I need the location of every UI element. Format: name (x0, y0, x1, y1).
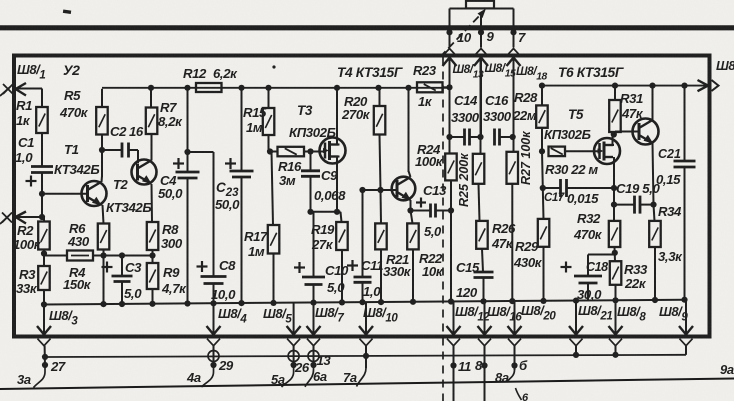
capacitor C23 (230, 171, 254, 177)
label C17 value (567, 191, 599, 206)
node C14 C16 mid (477, 134, 483, 140)
label T1 (54, 142, 99, 177)
label Ш8/10 (363, 305, 398, 325)
transistor T1 (82, 181, 107, 206)
node C17 right junction (611, 185, 617, 191)
potentiometer R (tone control, top) (450, 1, 514, 9)
label C9 (314, 168, 346, 203)
node T3 source junction (307, 209, 340, 215)
node 21a bus (573, 352, 579, 358)
node C23 top (238, 85, 244, 91)
polarity + C10 (294, 262, 305, 273)
capacitor C16 (495, 129, 500, 146)
label R16 (278, 159, 302, 188)
wire C21 top (684, 86, 686, 161)
node T3 drain top (334, 85, 340, 91)
wire T5 drain (613, 135, 615, 145)
label C1 (15, 135, 34, 165)
wire 8 drop (484, 346, 486, 401)
wire T5 source (613, 157, 615, 221)
wire R4 left (44, 255, 67, 257)
wire T4 collector (409, 89, 411, 177)
node C8 branch (184, 149, 190, 155)
wire R22 top (411, 211, 413, 224)
capacitor C9 (301, 171, 320, 177)
wire C15 bottom (483, 278, 485, 302)
label Ш8/7 (315, 305, 344, 325)
connector circle 4a (208, 351, 219, 362)
label C18 (586, 260, 608, 274)
connector Ш8/1 arrow (0, 83, 42, 96)
label R6 (67, 221, 90, 249)
capacitor C4 (176, 172, 200, 178)
node C19 left junction (611, 202, 617, 208)
wire R8-R9 (152, 250, 154, 263)
wire2 low (482, 249, 483, 272)
label 5a (271, 372, 285, 387)
node R23 wire1 junction (446, 84, 452, 90)
wire1 upper (449, 87, 451, 153)
wire 6a drop (313, 346, 315, 365)
node C13 wire1 junction (448, 207, 454, 213)
speck (63, 9, 71, 14)
wire2 mid (479, 184, 480, 221)
label Ш8/4 (218, 306, 247, 326)
wire C10 top (313, 212, 315, 277)
wire1 lower (450, 180, 452, 302)
wire right rail (542, 85, 709, 87)
node C14 left (446, 134, 452, 140)
node T6 collector rail (649, 83, 655, 89)
capacitor C2 (122, 143, 129, 158)
terminal 7a hook (357, 368, 367, 387)
resistor R15 (263, 108, 275, 135)
wire 9a drop (685, 346, 687, 355)
label 6a (313, 369, 327, 384)
resistor R3 (38, 266, 50, 290)
resistor R25 (473, 154, 485, 184)
label R15 (243, 105, 267, 135)
wire bottom edge line (0, 379, 734, 390)
connector Ш8/20 (508, 301, 522, 346)
label C13 (423, 183, 447, 198)
resistor R32 (609, 221, 621, 247)
connector right exit arrow (698, 80, 719, 91)
label Ш8/15 (485, 61, 517, 80)
resistor R16 (278, 147, 305, 157)
node T4 emitter junction (407, 207, 413, 213)
label R17 (244, 229, 268, 259)
wire R19 top (341, 212, 342, 222)
wire left rail (102, 87, 449, 89)
transistor T4 (392, 177, 416, 201)
label C11 (361, 258, 383, 299)
capacitor C19 (635, 196, 641, 214)
label Ш8/18 (516, 64, 548, 83)
resistor R1 (36, 107, 48, 133)
capacitor C21 (674, 161, 696, 167)
node pin9 junction (478, 29, 484, 35)
wire T6 emitter (653, 143, 654, 205)
wire bottom bus (45, 355, 686, 357)
label Ш8/12 (455, 304, 490, 324)
label R33 (624, 262, 648, 291)
node R8 R9 junction (149, 252, 155, 258)
label R20 (341, 94, 371, 122)
node C11 junction (359, 187, 365, 193)
label 7a (343, 370, 357, 385)
terminal 6 hook (516, 388, 530, 401)
wire R28-R30 (541, 128, 543, 152)
label C19 (616, 181, 660, 196)
node C9 top junction (307, 148, 313, 154)
pin label 7 (518, 30, 526, 45)
wire R31 bottom (614, 132, 616, 135)
capacitor C17 (561, 179, 567, 197)
wire T2 emitter (151, 184, 154, 222)
wire R29 bottom (543, 247, 545, 301)
node C1-R2 junction (39, 191, 45, 220)
wire T5 gate (599, 150, 601, 152)
connector Ш8/18 entry (507, 49, 521, 138)
connector circle 5a (288, 351, 299, 362)
wire C9 bottom (310, 176, 312, 212)
node T4 collector top (405, 85, 411, 91)
label R30 (545, 162, 598, 177)
wire R19 bottom (341, 250, 343, 303)
wire R32-R33 (614, 247, 617, 261)
node 7a bus (363, 353, 369, 359)
wire pot pin10 (449, 9, 451, 48)
wire R23 right (443, 86, 450, 88)
label C14 (451, 93, 480, 125)
wire C19 left (614, 204, 635, 206)
wire R1 top (41, 89, 43, 108)
resistor R7 (146, 108, 158, 135)
label R5 (59, 88, 89, 120)
transistor T5 (594, 138, 620, 164)
node R6 R4 junction (100, 252, 106, 258)
wire C18 bottom (587, 283, 589, 301)
wire 8b drop (615, 346, 617, 355)
resistor R27 (507, 152, 519, 184)
wire3 lower (511, 184, 513, 302)
label T6 (558, 65, 624, 80)
label R22 (419, 251, 444, 279)
polarity + C1 (26, 176, 37, 187)
capacitor C13 (431, 204, 436, 218)
label R21 (383, 252, 412, 279)
resistor R26 (476, 221, 488, 249)
label C18 value (577, 287, 602, 302)
wire R17 top (272, 152, 274, 226)
wire C21 bottom (684, 167, 686, 300)
terminal 5a hook (282, 365, 294, 387)
potentiometer wiper arrow (440, 9, 486, 58)
label R2 (13, 223, 42, 252)
connector Ш8/15 entry (474, 49, 488, 138)
wire C4 bottom (187, 178, 189, 304)
node R20 R21 junction (377, 187, 383, 193)
label R29 (513, 239, 543, 270)
capacitor C8 (201, 277, 227, 284)
wire C3 top (121, 256, 123, 277)
node 4a lower (210, 362, 216, 368)
resistor R28 (536, 105, 548, 127)
polarity + C23 (225, 158, 236, 169)
dashed separator line (442, 58, 444, 401)
wire T3 source node (311, 211, 341, 213)
terminal 4a hook (202, 365, 214, 387)
wire2 upper (480, 58, 482, 154)
node R31 rail (612, 83, 618, 89)
label Ш8/8 (617, 304, 646, 324)
label У2 (63, 62, 80, 78)
label R27 rotated (519, 131, 533, 185)
node 8b bus (612, 352, 618, 358)
label Ш8/16 (487, 304, 522, 324)
wire T1 emitter (102, 205, 104, 224)
wire R4 right (93, 255, 155, 257)
node R15 top (265, 85, 271, 91)
node T5 T6 junction (611, 131, 617, 137)
resistor R22 (407, 223, 419, 249)
node 8 (481, 362, 487, 368)
capacitor C1 (31, 167, 53, 173)
wire R6 bottom (103, 250, 105, 305)
wire C8 top (188, 152, 214, 277)
label 8 (475, 358, 483, 373)
label Ш8/3 (49, 308, 78, 328)
label R8 (161, 222, 183, 251)
wire C2 right (129, 150, 139, 163)
label 29 (218, 358, 234, 373)
wire3 upper (513, 58, 515, 152)
wire C2 left (102, 149, 122, 151)
wire R15 bottom (269, 135, 278, 152)
wire R34 top (654, 205, 655, 221)
connector Ш8/13 entry (443, 49, 457, 138)
node C21 rail (681, 83, 687, 89)
node C19 right junction (650, 202, 656, 208)
label 3a (17, 372, 31, 387)
resistor R2 (38, 222, 50, 250)
transistor T6 (633, 119, 659, 145)
label C3 (124, 260, 142, 301)
connector Ш8/4 (207, 303, 221, 345)
connector Ш8/16 (478, 301, 492, 345)
polarity + C3 (102, 262, 113, 273)
wire R34 bottom (654, 247, 656, 300)
label R26 (491, 221, 516, 251)
wire internal bus (44, 300, 685, 305)
resistor R4 (67, 251, 93, 261)
node C17 left junction (540, 185, 546, 191)
resistor R34 (649, 221, 661, 247)
wire R21 top (380, 190, 383, 223)
wire T6 collector (652, 86, 654, 120)
resistor R20 (374, 106, 386, 135)
wire 5a drop (293, 346, 295, 365)
label R32 (573, 211, 603, 242)
label 26 (294, 360, 310, 375)
capacitor C10 (302, 277, 325, 285)
label C4 (158, 173, 183, 201)
label Ш8/20 (521, 303, 556, 323)
polarity + C11 (347, 260, 358, 271)
wire T1 collector (101, 135, 104, 183)
label T3 (289, 103, 336, 140)
connector Ш8/2 arrow (0, 212, 44, 225)
block U2 border (14, 56, 710, 337)
wire T3 drain (337, 89, 340, 145)
resistor R23 (417, 82, 443, 92)
connector Ш8/7 (307, 303, 321, 346)
wire R22 bottom (412, 249, 414, 302)
wire T4 base (363, 189, 397, 191)
label C17 (544, 192, 565, 204)
node R7 top (148, 85, 154, 91)
polarity + C13 (416, 198, 426, 208)
label T4 (337, 65, 403, 80)
label 4a (186, 370, 201, 385)
resistor R19 (336, 222, 348, 250)
label T2 type (106, 200, 151, 215)
resistor R12 (196, 83, 222, 92)
label Ш8/9 (659, 304, 688, 324)
capacitor C18 (574, 276, 602, 283)
wire R30 right (565, 150, 600, 152)
wire R3 bottom (43, 290, 45, 305)
node pin7 junction (510, 29, 516, 35)
connector circle 6a (308, 351, 319, 362)
wire C16 right (500, 136, 513, 138)
label 11 (458, 359, 471, 374)
wire C13 right (436, 210, 452, 212)
wire R15 top (268, 89, 270, 108)
capacitor C14 (465, 129, 470, 146)
wire R2-R3 (43, 250, 45, 267)
label R12 (183, 66, 238, 81)
wire 11 drop (453, 346, 455, 401)
wire R17 bottom (273, 254, 275, 303)
wire T6 base (615, 131, 639, 133)
node R16 junction (267, 148, 273, 154)
resistor R29 (538, 219, 550, 247)
wire T4 emitter (410, 200, 412, 211)
label R7 (158, 100, 183, 129)
label R9 (161, 265, 187, 296)
node 5a lower (291, 362, 297, 368)
capacitor C3 (112, 276, 133, 282)
node C4 top (184, 85, 190, 91)
wire R7 top (150, 89, 152, 108)
wire C14 right (470, 136, 481, 138)
label 27 (50, 359, 66, 374)
wire C18 top (588, 255, 615, 277)
connector Ш8/10 (359, 302, 373, 345)
terminal 8a hook (507, 370, 515, 382)
polarity + C4 (173, 158, 184, 169)
wire T3 source (337, 157, 340, 212)
node R20 top (375, 85, 381, 91)
label T2 (113, 177, 129, 192)
label Ш8/21 (578, 303, 612, 323)
capacitor C11 (354, 277, 372, 282)
wire C23 bottom (241, 177, 243, 304)
wire pot pin9 (480, 12, 482, 48)
node R28 rail (539, 83, 545, 89)
wire b drop (514, 346, 516, 370)
label R3 (16, 267, 38, 296)
wire C17 right (567, 187, 615, 189)
wire 21a drop (575, 346, 577, 355)
wire R9 bottom (152, 289, 154, 304)
pin label 10 (457, 30, 472, 45)
wire C1 bottom (41, 173, 43, 218)
label C2 (110, 124, 144, 139)
wire R20 bottom (380, 135, 381, 191)
node R2 R4 junction (41, 250, 47, 256)
node R32 R33 junction (612, 250, 618, 256)
node 6a lower (310, 362, 316, 368)
label 13 (317, 353, 332, 368)
resistor R21 (375, 223, 387, 249)
label R25 rotated (457, 153, 471, 207)
resistor R30 (549, 147, 566, 157)
connector Ш8/21 (569, 301, 583, 346)
wire 7a drop (365, 346, 367, 368)
wire R29 top (541, 151, 544, 188)
transistor T3 (320, 138, 346, 164)
label C8 (211, 258, 236, 302)
wire R31 top (614, 86, 616, 100)
label C23 (215, 180, 240, 212)
wire C19 right (640, 204, 654, 206)
connector Ш8/3 (37, 305, 51, 346)
label R28 (512, 90, 538, 123)
node C2 junction (99, 147, 105, 153)
label R4 (63, 265, 92, 292)
wire R20 top (379, 89, 381, 106)
resistor R9 (147, 263, 159, 289)
label Ш8/13 (453, 62, 485, 81)
transistor T2 (132, 160, 157, 185)
wire C9 top (310, 152, 312, 171)
label Ш8 right-top (716, 58, 734, 78)
label C16 (483, 93, 512, 124)
wire R16-T3gate (304, 151, 325, 153)
stray mark (272, 65, 275, 68)
polarity + C18 (561, 262, 572, 273)
wire R21 bottom (380, 249, 382, 302)
wire C8 bottom (213, 284, 215, 304)
wire T2 collector (151, 134, 153, 161)
label C10 (325, 263, 349, 295)
label 9a (720, 362, 734, 377)
node 3a bus (42, 354, 48, 360)
wire C11 top (362, 190, 364, 277)
label R23 value (418, 94, 433, 109)
label C13 value (424, 224, 442, 239)
node b (511, 362, 517, 368)
resistor R8 (147, 222, 159, 250)
node 11 (450, 362, 456, 368)
wire R2 top (43, 217, 45, 222)
node R30 R29 junction (539, 148, 545, 154)
wire R28 top (541, 86, 543, 106)
wire R5 top (101, 89, 103, 107)
